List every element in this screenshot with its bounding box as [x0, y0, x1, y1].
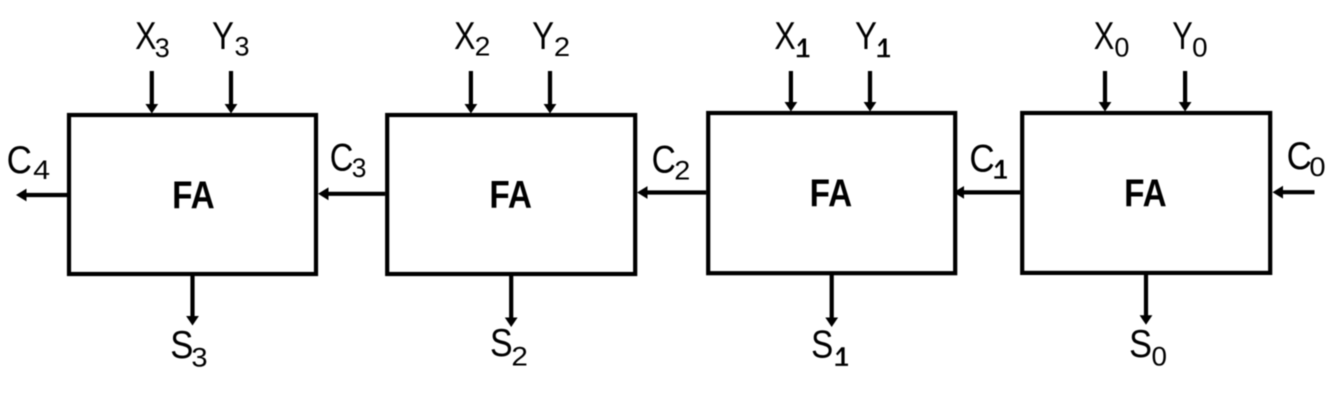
svg-text:2: 2 [554, 32, 570, 62]
svg-text:0: 0 [1192, 32, 1207, 63]
svg-text:Y: Y [1172, 15, 1193, 58]
svg-text:S: S [1129, 322, 1152, 365]
svg-text:C: C [969, 137, 994, 180]
svg-text:X: X [1094, 15, 1115, 58]
svg-text:FA: FA [1124, 171, 1167, 215]
svg-text:S: S [811, 323, 833, 366]
svg-text:FA: FA [172, 173, 215, 217]
svg-text:3: 3 [155, 33, 170, 63]
svg-text:3: 3 [235, 31, 250, 61]
svg-text:Y: Y [212, 15, 234, 58]
svg-text:Y: Y [855, 15, 877, 58]
svg-text:X: X [135, 15, 156, 57]
svg-text:S: S [490, 321, 513, 365]
svg-text:3: 3 [191, 342, 207, 372]
svg-text:2: 2 [674, 156, 690, 186]
svg-text:FA: FA [810, 171, 853, 215]
svg-text:0: 0 [1114, 33, 1129, 63]
svg-text:S: S [170, 323, 193, 366]
svg-text:0: 0 [1309, 152, 1325, 182]
svg-text:C: C [7, 138, 32, 181]
svg-text:4: 4 [33, 156, 50, 186]
svg-text:0: 0 [1151, 341, 1166, 372]
svg-text:C: C [1287, 135, 1312, 178]
svg-text:2: 2 [511, 342, 528, 372]
svg-text:X: X [454, 15, 475, 57]
svg-text:C: C [330, 136, 354, 179]
svg-text:FA: FA [489, 173, 532, 217]
svg-text:X: X [774, 15, 795, 57]
svg-text:Y: Y [532, 15, 554, 58]
svg-text:C: C [652, 137, 676, 181]
svg-text:2: 2 [475, 31, 491, 61]
svg-text:3: 3 [352, 153, 367, 183]
